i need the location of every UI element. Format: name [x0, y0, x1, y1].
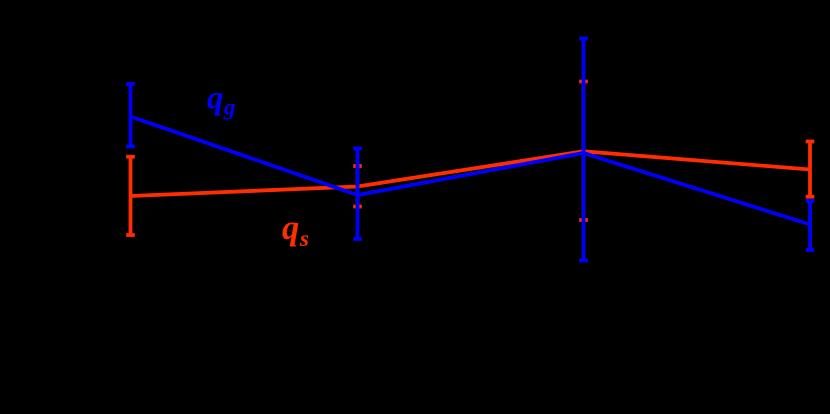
blue data line q_g — [131, 117, 811, 225]
red series q_s error bar 4 (x=810) — [806, 142, 815, 197]
blue series q_g error bar 1 (x=130.5) — [126, 84, 135, 147]
blue series q_g error bar 4 (x=810) — [806, 201, 815, 250]
svg-text:q: q — [282, 209, 299, 247]
red data line q_s — [131, 151, 811, 196]
svg-text:g: g — [223, 95, 236, 120]
svg-text:s: s — [299, 226, 309, 251]
blue series q_g error bar 3 (x=583.5) — [579, 39, 588, 261]
red series q_s error bar 3 (x=583.5) — [579, 82, 588, 221]
red series q_s error bar 2 (x=357.5) — [353, 166, 362, 207]
svg-text:q: q — [207, 81, 224, 117]
blue series q_g error bar 2 (x=357.5) — [353, 149, 362, 240]
red series q_s error bar 1 (x=130.5) — [126, 157, 135, 235]
